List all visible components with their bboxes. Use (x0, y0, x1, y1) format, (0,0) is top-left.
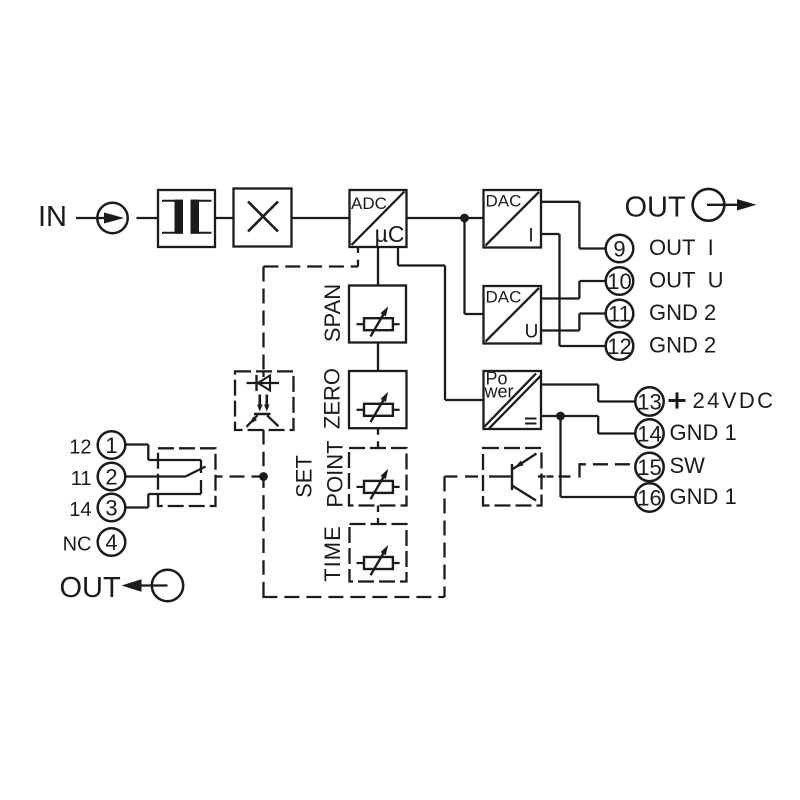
svg-text:14: 14 (69, 499, 91, 521)
svg-text:SET: SET (291, 455, 316, 498)
phototransistor box (dashed) (483, 448, 542, 506)
wire uC to SPAN (377, 248, 379, 286)
terminal 1 number (105, 433, 117, 458)
label OUT I (649, 235, 714, 260)
svg-text:IN: IN (38, 201, 67, 233)
terminal 4 circle (98, 528, 126, 556)
svg-text:DAC: DAC (486, 288, 522, 307)
multiplier X symbol (248, 202, 278, 232)
relay contact box (dashed) (158, 448, 216, 506)
node dashed junction dot (259, 472, 268, 481)
wire power to terminal 14 (541, 416, 636, 434)
dashed wire phototransistor to SW step (547, 463, 636, 477)
dashed wire ZERO to SET POINT (377, 428, 379, 448)
dashed wire net: LED optocoupler to junction dot (262, 430, 264, 597)
svg-text:SW: SW (670, 453, 706, 478)
power DC symbol = (525, 419, 537, 424)
wire ADC to DAC I (407, 217, 484, 219)
wire DAC I to terminal 9 (541, 202, 606, 249)
terminal 1 circle (98, 431, 126, 459)
svg-text:ZERO: ZERO (319, 368, 344, 429)
label OUT U (649, 268, 724, 293)
label I (528, 226, 533, 247)
transformer T1 isolation box (158, 190, 215, 247)
svg-text:12: 12 (69, 437, 91, 459)
label OUT (bottom left) (60, 572, 122, 604)
wire transformer to multiplier (215, 217, 234, 219)
LED opto phototransistor (247, 414, 279, 427)
svg-text:11: 11 (608, 301, 631, 326)
terminal 11 number (608, 301, 631, 326)
svg-text:12: 12 (607, 334, 631, 359)
svg-text:NC: NC (63, 534, 92, 556)
svg-text:11: 11 (71, 468, 92, 490)
terminal 15 number (637, 455, 661, 480)
svg-text:µC: µC (375, 221, 405, 247)
dashed wire into phototransistor box (445, 475, 484, 477)
LED optocoupler box (dashed) (235, 371, 294, 430)
wire DAC I pin I to terminal 12 (541, 234, 606, 346)
dashed wire ADC to LED optocoupler (264, 248, 359, 372)
TIME trimmer symbol (357, 545, 400, 575)
LED diode (247, 375, 280, 391)
DAC U diagonal (486, 288, 540, 342)
svg-text:OUT: OUT (60, 572, 122, 604)
phototransistor base (489, 464, 512, 490)
svg-text:15: 15 (637, 455, 661, 480)
wire multiplier to ADC (292, 217, 350, 219)
relay NC contact line (167, 480, 201, 494)
wire terminal 1 to relay NO (125, 445, 167, 461)
label POINT (322, 440, 347, 507)
dashed wire up to phototransistor (443, 477, 445, 598)
wire junction to terminal 16 (561, 416, 636, 497)
terminal 9 number (613, 236, 625, 261)
svg-text:ADC: ADC (351, 194, 387, 213)
label OUT (top right) (625, 192, 687, 224)
terminal 12 circle (606, 332, 634, 360)
label DAC (U) (486, 288, 522, 307)
svg-text:14: 14 (637, 421, 661, 446)
svg-text:10: 10 (607, 269, 631, 294)
label uC (375, 221, 405, 247)
label 14 (69, 499, 91, 521)
label ZERO (319, 368, 344, 429)
label TIME (320, 525, 345, 582)
SPAN adjust box (349, 286, 406, 343)
terminal 13 circle (635, 387, 663, 415)
output symbol bottom (circle with arrow) (122, 570, 184, 601)
label IN (38, 201, 67, 233)
svg-text:I: I (528, 226, 533, 247)
svg-text:3: 3 (105, 495, 117, 520)
svg-text:OUT U: OUT U (649, 268, 724, 293)
DAC U converter box (484, 286, 542, 344)
ZERO trimmer symbol (357, 392, 400, 422)
label GND 1 (14) (670, 420, 737, 445)
phototransistor emitter (512, 486, 536, 501)
label U (525, 322, 539, 343)
wire terminal 3 to relay NC (125, 494, 167, 508)
label Po (486, 369, 508, 389)
label GND 2 (11) (649, 300, 716, 325)
output symbol top (circle with arrow) (693, 189, 757, 221)
svg-text:DAC: DAC (486, 192, 522, 211)
wire power to terminal 13 (541, 385, 636, 402)
SET POINT adjust box (dashed) (349, 448, 407, 506)
svg-text:GND 2: GND 2 (649, 300, 716, 325)
DAC I diagonal (486, 192, 540, 246)
terminal 13 number (637, 389, 661, 414)
svg-text:GND 2: GND 2 (649, 333, 716, 358)
terminal 14 number (637, 421, 661, 446)
terminal 2 number (105, 464, 117, 489)
node junction power GND (556, 412, 565, 421)
TIME adjust box (dashed) (350, 524, 407, 582)
svg-text:9: 9 (613, 236, 625, 261)
transformer T1 windings (162, 200, 212, 234)
ADC/uC converter box U1 (350, 190, 407, 247)
label SET (291, 455, 316, 498)
svg-text:U: U (525, 322, 539, 343)
terminal 12 number (607, 334, 631, 359)
terminal 9 circle (606, 235, 634, 263)
svg-text:POINT: POINT (322, 440, 347, 507)
svg-text:TIME: TIME (320, 525, 345, 582)
svg-text:4: 4 (105, 530, 117, 555)
svg-text:SPAN: SPAN (320, 284, 345, 342)
terminal 11 circle (606, 300, 634, 328)
terminal 3 circle (98, 494, 126, 522)
wire SPAN to ZERO (377, 343, 379, 372)
terminal 3 number (105, 495, 117, 520)
svg-text:2: 2 (105, 464, 117, 489)
wire DAC U to terminal 10 (541, 281, 606, 299)
power supply box (484, 371, 542, 429)
phototransistor collector (512, 454, 537, 470)
ZERO adjust box (349, 371, 407, 428)
wire DAC U pin U to terminal 11 (541, 314, 606, 331)
multiplier box (234, 189, 292, 247)
label 11 (71, 468, 92, 490)
dashed wire bottom run (262, 596, 444, 598)
svg-text:16: 16 (637, 485, 661, 510)
terminal 2 circle (98, 463, 126, 491)
ADC box diagonal (352, 192, 405, 246)
svg-text:wer: wer (484, 382, 514, 402)
power box double diagonal (485, 374, 541, 429)
svg-text:24VDC: 24VDC (693, 388, 776, 413)
relay common line (167, 475, 186, 477)
DAC I converter box (484, 190, 542, 248)
terminal 10 circle (606, 267, 634, 295)
label DAC (I) (486, 192, 522, 211)
dashed wire SET POINT to TIME (377, 506, 379, 525)
wire junction down to DAC U (465, 218, 484, 314)
terminal 10 number (607, 269, 631, 294)
phototransistor right pin tick (538, 475, 546, 477)
wire IN to input symbol (76, 217, 104, 219)
label NC (63, 534, 92, 556)
terminal 16 number (637, 485, 661, 510)
terminal 16 circle (635, 483, 663, 511)
svg-text:1: 1 (105, 433, 117, 458)
relay switch blade (186, 467, 206, 477)
relay NO contact line (167, 460, 201, 473)
svg-text:13: 13 (637, 389, 661, 414)
label GND 2 (12) (649, 333, 716, 358)
wire uC to power supply (398, 248, 484, 401)
wire input symbol to transformer (137, 217, 159, 219)
SPAN trimmer symbol (357, 306, 400, 336)
svg-text:OUT I: OUT I (649, 235, 714, 260)
wire terminal 2 to relay common (125, 475, 167, 477)
label ADC (351, 194, 387, 213)
LED optocoupler wire stub (262, 371, 264, 377)
node junction ADC output (460, 214, 469, 223)
dashed wire relay to junction dot (216, 475, 261, 477)
label + 24VDC (669, 388, 776, 413)
label SPAN (320, 284, 345, 342)
svg-text:OUT: OUT (625, 192, 687, 224)
label GND 1 (16) (670, 484, 737, 509)
svg-text:GND 1: GND 1 (670, 484, 737, 509)
label 12 (69, 437, 91, 459)
label SW (670, 453, 706, 478)
SET POINT trimmer symbol (357, 469, 400, 499)
terminal 14 circle (635, 419, 663, 447)
terminal 4 number (105, 530, 117, 555)
svg-text:GND 1: GND 1 (670, 420, 737, 445)
input current source symbol (circle with arrow) (97, 203, 127, 233)
terminal 15 circle (635, 453, 663, 481)
LED light arrows (257, 395, 270, 412)
label wer (484, 382, 514, 402)
